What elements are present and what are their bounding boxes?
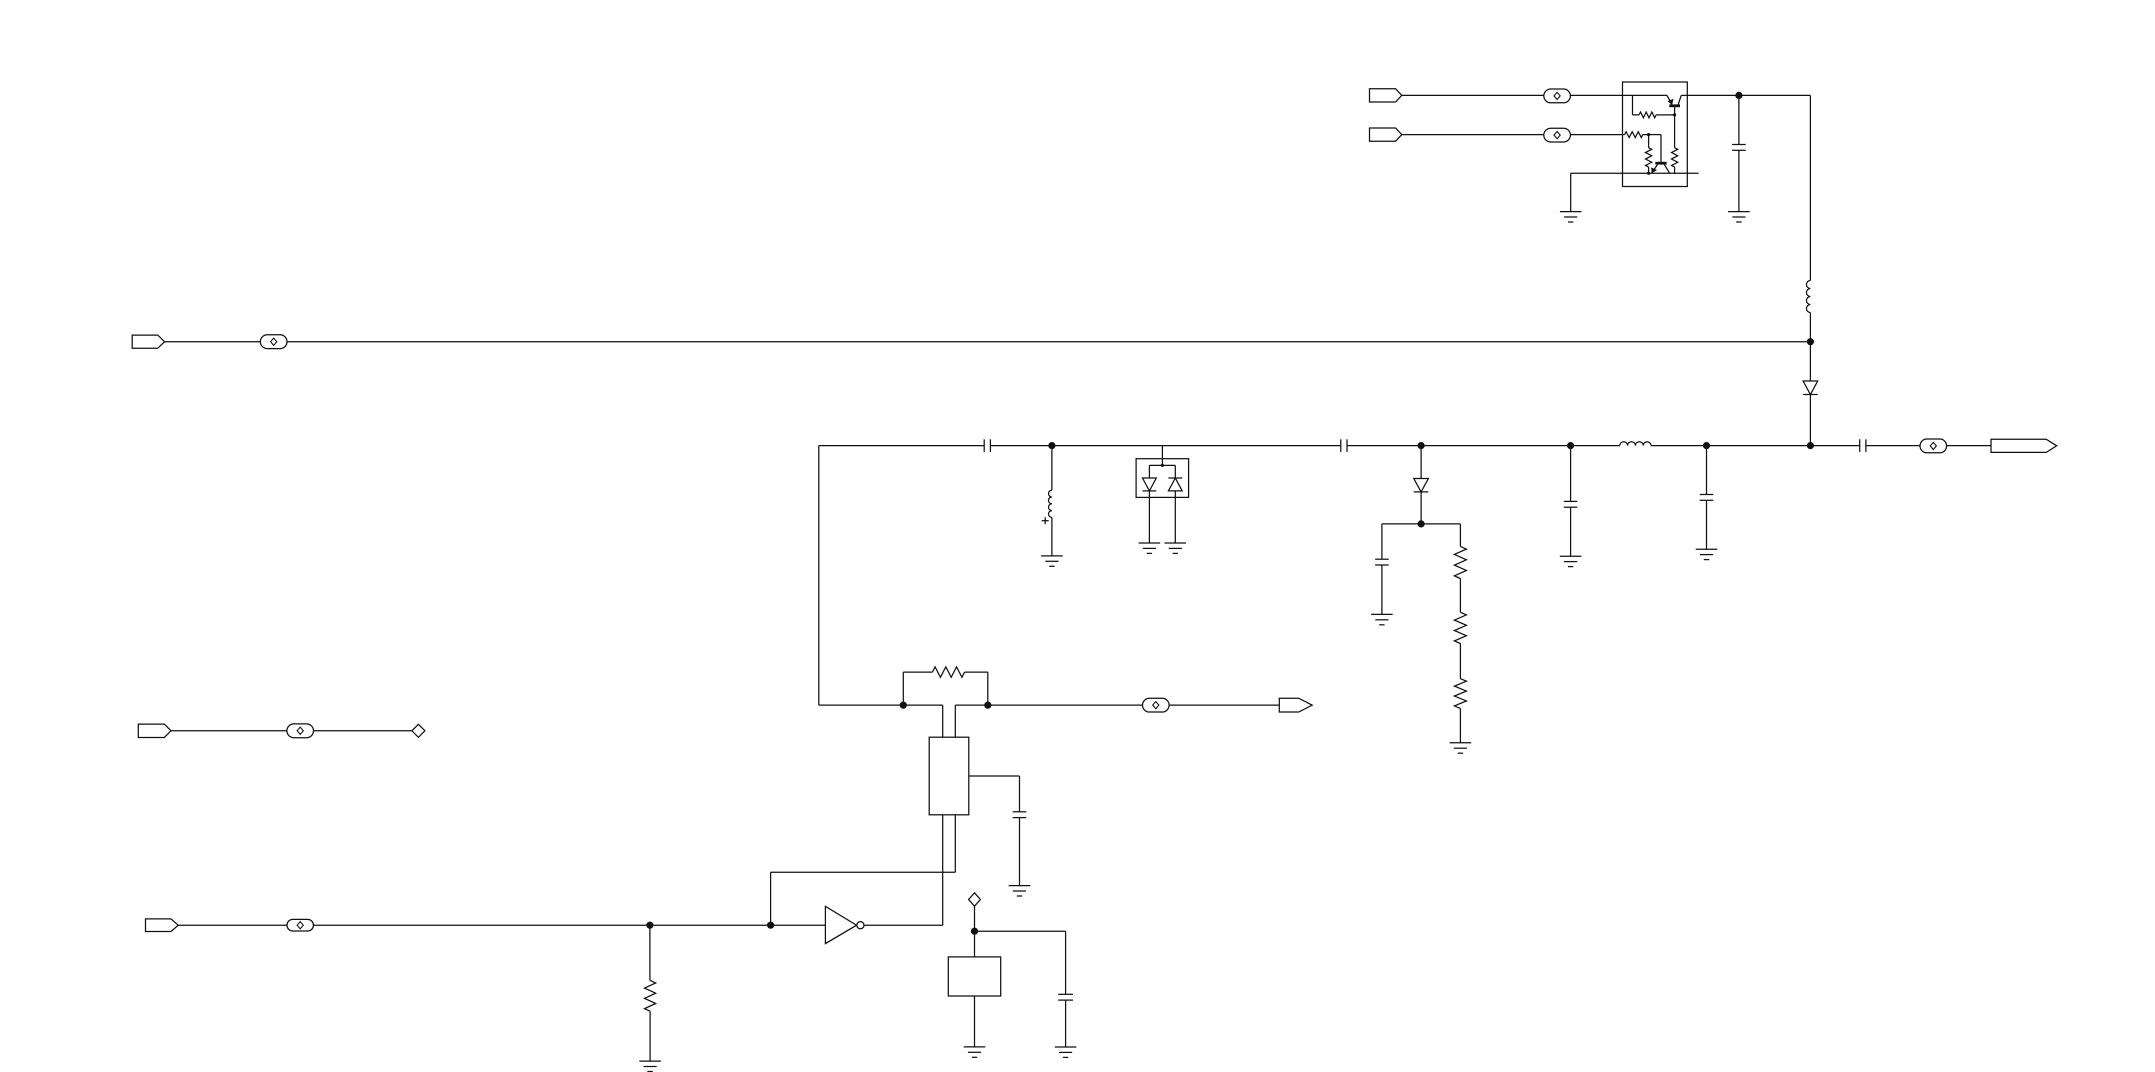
- wire C2 to node D: [990, 445, 1052, 447]
- diode D2b (cathode up): [1168, 478, 1182, 491]
- wire node M to oscillator Y1: [974, 931, 976, 957]
- wire input1 flag to ferrite bead FB1: [1402, 94, 1544, 96]
- transistor Q1 emitter with arrow: [1667, 95, 1673, 104]
- output connector flag J5 (bottom): [1279, 698, 1312, 712]
- capacitor C4 (series in bus): [1341, 439, 1347, 452]
- ESD diode pair D2 box outline: [1136, 459, 1189, 498]
- ground D2a: [1139, 543, 1161, 553]
- ground C6: [1560, 556, 1582, 566]
- ground C5: [1371, 614, 1393, 624]
- wire U1 ground drop: [1570, 173, 1572, 211]
- ground C1: [1728, 212, 1750, 222]
- wire D2 internal tee: [1149, 465, 1175, 478]
- transistor Q2 emitter with arrow: [1652, 165, 1658, 173]
- input connector flag J2 (top right, input 2): [1370, 128, 1402, 141]
- wire C8 to ferrite bead FB4: [1866, 445, 1921, 447]
- wire D2a to ground: [1148, 491, 1150, 543]
- wire node K to node L: [650, 924, 771, 926]
- resistor R6 (divider middle): [1454, 579, 1466, 644]
- resistor R5 (node F divider top): [1421, 524, 1466, 579]
- node J junction: [984, 702, 991, 709]
- node E junction: [1418, 442, 1425, 449]
- transistor Q2 collector: [1664, 165, 1669, 174]
- capacitor C5 to ground (left of node F): [1375, 524, 1421, 615]
- resistor R2 (Q2 base series): [1625, 132, 1649, 138]
- wire FB5 to output flag: [1169, 704, 1279, 706]
- wire C4 to node E: [1347, 445, 1421, 447]
- wire J7 to ferrite bead FB7: [171, 730, 287, 732]
- diode D2a (anode up): [1143, 478, 1157, 491]
- ferrite bead FB6 (oval with diamond): [287, 919, 314, 931]
- wire node I to crystal pin 1: [903, 705, 942, 737]
- transistor Q2 base wire: [1649, 135, 1661, 162]
- resistor R7 (divider bottom): [1454, 644, 1466, 743]
- wire bus node E to node G: [1421, 445, 1571, 447]
- node Q1 base junction: [1673, 113, 1676, 116]
- wire bus corner drop (left): [819, 446, 904, 706]
- input connector flag J6 (bottom left): [146, 919, 179, 932]
- node A junction: [1735, 92, 1742, 99]
- transistor Q1 base lead: [1674, 107, 1676, 115]
- wire crystal side pin to C9: [969, 776, 1020, 812]
- capacitor C1 to ground: [1732, 95, 1746, 211]
- wire bus to L2: [1571, 445, 1620, 447]
- wire node D to ESD box lead: [1052, 445, 1163, 447]
- wire inverter output to crystal pin 3: [864, 924, 943, 926]
- wire bus left segment: [819, 445, 984, 447]
- wire bus node H to node C: [1707, 445, 1811, 447]
- ferrite bead FB4 (oval with diamond): [1920, 439, 1947, 453]
- input connector flag J3 (left, long rail): [132, 335, 164, 348]
- wire U1 bottom rail: [1571, 172, 1699, 174]
- capacitor C10 to ground: [1058, 994, 1073, 1047]
- transistor Q1 base bar: [1669, 104, 1680, 107]
- plus sign of C3: [1042, 517, 1049, 524]
- wire FB2 to box U1 resistor: [1570, 134, 1624, 136]
- oscillator Y1 body: [948, 957, 1000, 996]
- capacitor C2 (series in bus): [984, 439, 990, 452]
- wire crystal pin 4 (to input node): [771, 815, 956, 925]
- resistor R3 (Q2 base-emitter shunt): [1646, 135, 1652, 174]
- ground U1: [1560, 212, 1582, 222]
- node C junction (bus / D1): [1807, 442, 1814, 449]
- ground C3: [1041, 556, 1063, 566]
- polarized capacitor C3 to ground: [1048, 446, 1051, 556]
- node D2 center junction: [1161, 464, 1164, 467]
- ground R9: [639, 1061, 661, 1071]
- dual digital transistor U1 package outline: [1623, 82, 1688, 187]
- ground C7: [1696, 549, 1718, 559]
- output connector flag J4 (antenna out): [1991, 439, 2057, 452]
- wire FB4 to output flag: [1946, 445, 1991, 447]
- wire FB6 to node K: [313, 924, 650, 926]
- wire bus to C4: [1162, 445, 1340, 447]
- wire N1 to node M: [974, 906, 976, 931]
- resistor R8 (crystal bypass loop): [903, 667, 988, 705]
- inverter U2 bubble: [857, 922, 864, 929]
- transistor Q1 collector: [1678, 95, 1688, 105]
- wire L1 to node B: [1809, 313, 1811, 342]
- node B junction: [1807, 338, 1814, 345]
- node I junction: [900, 702, 907, 709]
- capacitor C6 to ground: [1564, 446, 1578, 557]
- wire node J to ferrite bead FB5: [988, 704, 1143, 706]
- ground R7: [1450, 743, 1472, 753]
- inverter U2 triangle: [825, 906, 856, 943]
- wire Y1 to ground: [974, 996, 976, 1047]
- capacitor C8 (series in bus): [1860, 439, 1866, 452]
- ferrite bead FB3 (oval with diamond): [260, 335, 287, 349]
- node M junction: [971, 928, 978, 935]
- diode D3 (shunt, anode up): [1414, 446, 1429, 524]
- wire node J to crystal pin 2: [955, 705, 988, 737]
- resistor R4 (Q1 base-emitter shunt): [1672, 115, 1678, 173]
- node L junction: [767, 922, 774, 929]
- wire node A to right rail: [1739, 95, 1811, 280]
- diode D1 (series, anode up): [1803, 342, 1818, 446]
- ferrite bead FB5 (oval with diamond): [1143, 698, 1170, 712]
- resistor R9 to ground: [645, 925, 656, 1061]
- ferrite bead FB2 (oval with diamond): [1544, 128, 1571, 142]
- node Q2 base junction: [1647, 133, 1650, 136]
- wire node L to inverter input: [771, 924, 826, 926]
- node G junction: [1567, 442, 1574, 449]
- node D junction: [1048, 442, 1055, 449]
- wire FB1 to dual-transistor box U1: [1570, 94, 1667, 96]
- net connector diamond N2: [412, 724, 425, 737]
- ground C10: [1055, 1047, 1077, 1057]
- ground C9: [1009, 886, 1031, 896]
- input connector flag J7 (mid left): [138, 724, 171, 737]
- input connector flag J1 (top right, input 1): [1370, 89, 1402, 102]
- wire bus node C to C8: [1810, 445, 1859, 447]
- capacitor C7 to ground: [1700, 446, 1714, 550]
- ferrite bead FB7 (oval with diamond): [287, 724, 314, 738]
- capacitor C9 to ground: [1013, 812, 1027, 886]
- crystal filter X1 body: [929, 737, 969, 815]
- wire J3 to ferrite bead FB3: [165, 341, 261, 343]
- ground Y1: [964, 1047, 986, 1057]
- wire D2b to ground: [1174, 491, 1176, 543]
- node Q2 emitter junction: [1647, 172, 1650, 175]
- wire U1 collector to node A: [1687, 94, 1739, 96]
- net connector diamond N1: [969, 893, 981, 906]
- node K junction: [646, 922, 653, 929]
- wire bus into D2 center lead: [1161, 446, 1163, 466]
- wire FB7 to net connector: [313, 730, 412, 732]
- inductor L1 (vertical choke): [1806, 281, 1810, 313]
- node F junction (below D3): [1418, 520, 1425, 527]
- wire crystal pin 3 (to inverter output): [942, 815, 944, 925]
- wire node M to C10: [975, 931, 1066, 994]
- wire L2 to node H: [1651, 445, 1707, 447]
- ground D2b: [1165, 543, 1187, 553]
- wire J6 to ferrite bead FB6: [178, 924, 287, 926]
- inductor L2 (series in bus): [1620, 442, 1651, 446]
- node H junction: [1703, 442, 1710, 449]
- wire FB3 to node B (long horizontal rail): [287, 341, 1810, 343]
- wire input2 flag to ferrite bead FB2: [1402, 134, 1544, 136]
- transistor Q2 base bar: [1655, 162, 1666, 165]
- resistor R1 (Q1 base series): [1633, 95, 1675, 117]
- ferrite bead FB1 (oval with diamond): [1544, 89, 1571, 103]
